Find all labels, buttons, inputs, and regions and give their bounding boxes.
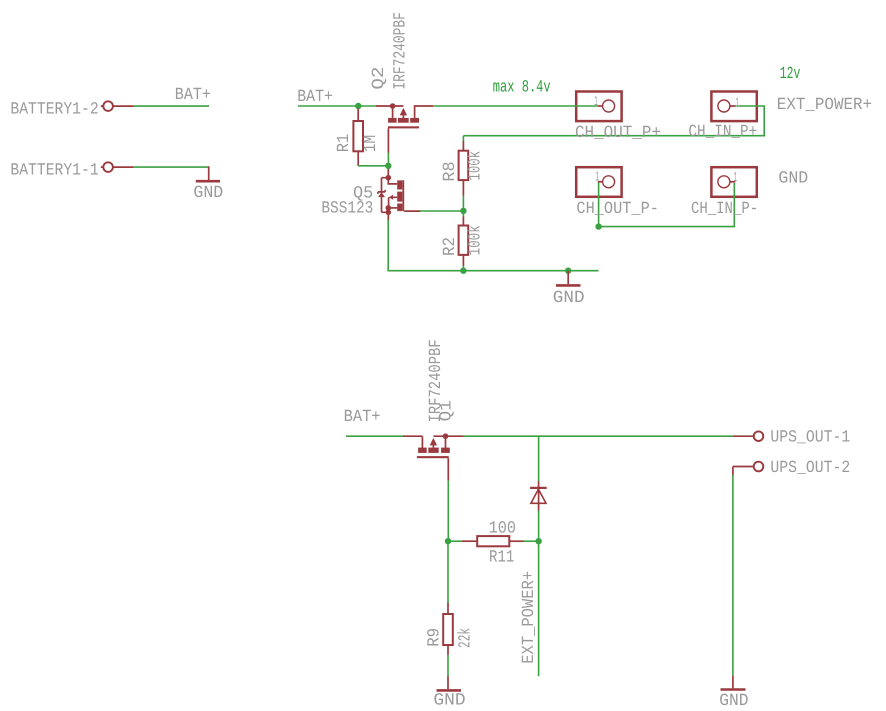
svg-text:100: 100 <box>489 520 516 539</box>
svg-text:CH_OUT_P-: CH_OUT_P- <box>576 200 659 219</box>
svg-text:Q2: Q2 <box>370 67 389 90</box>
svg-text:1M: 1M <box>362 135 381 152</box>
svg-text:Q1: Q1 <box>438 400 457 421</box>
svg-text:R8: R8 <box>441 161 460 181</box>
svg-text:BATTERY1-2: BATTERY1-2 <box>10 101 98 120</box>
svg-text:100k: 100k <box>466 225 485 255</box>
svg-text:GND: GND <box>719 692 748 711</box>
svg-text:UPS_OUT-1: UPS_OUT-1 <box>770 428 850 447</box>
svg-text:1: 1 <box>734 170 737 186</box>
svg-text:CH_IN_P-: CH_IN_P- <box>691 200 758 219</box>
svg-text:IRF7240PBF: IRF7240PBF <box>392 12 411 89</box>
svg-text:GND: GND <box>433 692 465 711</box>
svg-text:1: 1 <box>736 96 739 112</box>
svg-text:BAT+: BAT+ <box>297 88 333 107</box>
svg-text:BAT+: BAT+ <box>175 86 211 105</box>
svg-text:GND: GND <box>778 169 808 188</box>
svg-text:R2: R2 <box>441 237 460 256</box>
svg-text:100k: 100k <box>466 151 485 181</box>
svg-text:GND: GND <box>553 289 585 308</box>
svg-text:EXT_POWER+: EXT_POWER+ <box>777 96 872 115</box>
svg-text:BAT+: BAT+ <box>344 408 381 427</box>
svg-text:EXT_POWER+: EXT_POWER+ <box>520 571 539 664</box>
svg-text:max 8.4v: max 8.4v <box>493 79 551 98</box>
svg-text:12v: 12v <box>780 65 801 84</box>
svg-text:22k: 22k <box>456 628 475 648</box>
svg-text:R1: R1 <box>335 134 354 152</box>
svg-text:CH_OUT_P+: CH_OUT_P+ <box>575 124 661 143</box>
svg-text:1: 1 <box>596 169 600 185</box>
svg-text:GND: GND <box>193 184 223 203</box>
svg-text:CH_IN_P+: CH_IN_P+ <box>688 123 757 142</box>
svg-text:BSS123: BSS123 <box>321 199 373 218</box>
svg-text:R9: R9 <box>425 628 444 647</box>
svg-text:BATTERY1-1: BATTERY1-1 <box>10 162 98 181</box>
svg-text:UPS_OUT-2: UPS_OUT-2 <box>770 459 850 478</box>
svg-text:1: 1 <box>594 94 598 110</box>
svg-text:R11: R11 <box>489 548 514 567</box>
